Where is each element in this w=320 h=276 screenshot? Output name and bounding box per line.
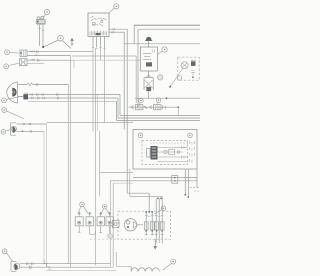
right stubs below box <box>184 169 186 194</box>
bottom bundle wires <box>20 263 110 265</box>
verticals x110 x113 <box>109 181 111 266</box>
callout G (fuse) <box>139 98 143 104</box>
ignition coil 1 <box>75 213 83 233</box>
bundle corner bends <box>44 260 48 264</box>
tail/stop lamp in dashed box <box>181 60 196 78</box>
callout Q (coil4 bottom, gray) <box>108 234 113 239</box>
right hatches <box>190 141 195 163</box>
wire from box right y29 <box>109 28 127 30</box>
magneto <box>124 219 143 231</box>
callout C (main switch) <box>109 4 119 13</box>
harness vertical x46 <box>46 124 48 267</box>
pickup coil left <box>112 220 119 228</box>
tail lamp <box>11 261 20 271</box>
callout 5 (left lower) <box>4 63 19 68</box>
position lamp (small, left) <box>11 123 17 135</box>
starter relay below battery <box>144 71 153 98</box>
wire switch down 1 <box>39 25 41 46</box>
wire y60 to x140 <box>74 59 140 61</box>
connector block <box>147 146 158 160</box>
callout E (gray) <box>158 75 163 80</box>
callout D (battery) <box>158 47 168 55</box>
feeds to magneto rows <box>127 193 149 212</box>
vertical x136 (from y56) <box>135 56 137 103</box>
front turn signal lamp (upper) <box>20 50 27 57</box>
wire y56 to x136 <box>72 55 136 57</box>
resistor coil loops <box>131 268 159 272</box>
frame ground dome <box>145 37 152 47</box>
ignition coil 2 <box>86 213 95 235</box>
leader from lamp <box>171 68 183 86</box>
vertical x138 <box>137 29 139 107</box>
harness vertical x95.5 <box>95 48 97 265</box>
wire y124 from position lamp <box>17 123 47 125</box>
wire components in magneto box <box>144 215 164 234</box>
ground arrow below magneto box <box>154 239 157 249</box>
long wire y29 <box>138 28 200 30</box>
corner x116 <box>116 252 131 266</box>
fuse chain symbols <box>131 105 166 110</box>
callout 6 (headlamp bulb) <box>2 96 24 103</box>
harness vertical x68 <box>67 85 69 264</box>
harness vertical x74 stub <box>73 60 75 68</box>
jog down verticals to feed band <box>119 95 121 116</box>
long wire y25 (dark) <box>134 24 200 26</box>
junction dot <box>42 46 44 48</box>
wire y172.5 into box <box>100 172 133 174</box>
callout H (fuse2) <box>156 98 160 104</box>
callout 8 <box>1 130 10 135</box>
box internal wires <box>158 148 188 158</box>
vertical x124 <box>123 32 125 129</box>
front turn signal lamp (lower) <box>20 59 28 66</box>
switch box pigtails <box>93 37 105 48</box>
wire y63.5 short <box>27 63 44 65</box>
callout 4 (left, turn signal) <box>5 50 19 55</box>
wire from box right y32 <box>109 31 124 33</box>
coil stub arrowheads <box>78 212 111 214</box>
wire y55.5 <box>27 55 71 57</box>
callout R (tail lamp) <box>2 249 12 261</box>
callout 7 (left, position lamp leader) <box>2 108 24 119</box>
harness vertical x100.5 bend to y60 <box>100 48 102 61</box>
callout A (top-left) <box>44 9 50 17</box>
wire y98 <box>135 97 200 99</box>
small comp on wires <box>172 176 178 184</box>
feed band lines y115-121 <box>120 115 200 117</box>
magneto dashed box <box>118 211 171 239</box>
harness vertical x97.5 <box>97 95 99 131</box>
harness vertical x104.5 <box>104 48 106 123</box>
ignition coil 3 <box>97 213 105 233</box>
main switch box (top middle) <box>88 13 109 37</box>
battery <box>141 47 158 71</box>
ignition switch S1 <box>36 16 45 25</box>
callout letter specks <box>3 6 191 263</box>
wires from bulb y94.5 / y98 with connector pairs <box>28 94 120 96</box>
harness vertical x70.5 <box>70 56 72 268</box>
wire y60 with curls <box>27 59 74 61</box>
regulator big box <box>133 130 197 170</box>
bulb blob <box>18 93 28 99</box>
vertical from fuse end <box>177 107 179 116</box>
antenna arrow symbol <box>70 38 73 46</box>
headlamp <box>7 82 18 103</box>
harness vertical x93 <box>92 48 94 131</box>
callout F on leader <box>177 76 181 80</box>
headlamp top wire y84.5 with zigzag <box>18 84 27 86</box>
wire y43.5 across battery <box>124 43 200 45</box>
vertical x134 <box>133 25 135 44</box>
inner dashed box <box>142 141 188 165</box>
callout J (box left) <box>138 133 143 138</box>
callout B (V leaders) <box>45 35 71 48</box>
callout M (magneto wires) <box>155 206 166 214</box>
vertical x99.7 <box>99 131 101 196</box>
fuse line y107 <box>129 106 179 108</box>
wire y131 <box>17 130 45 132</box>
callout P (coils 3-4) <box>101 204 109 214</box>
vertical x127 <box>126 29 128 193</box>
callout S (resistor) <box>163 259 175 269</box>
connector ticks on switch wires <box>38 29 44 31</box>
harness vertical x44 <box>43 131 45 263</box>
wire y52 with connector curls <box>27 51 93 53</box>
callout N (coils 1-2) <box>78 202 88 213</box>
callout K (box right) <box>188 133 193 138</box>
wire y122.5 long <box>47 122 134 124</box>
lighting dashed box (top right) <box>178 57 199 80</box>
wires under box y177.5 y180.5 <box>133 177 197 179</box>
dash row inside box top <box>151 142 187 144</box>
ignition coil 4 <box>106 213 114 234</box>
wire switch down 2 <box>42 25 44 47</box>
wire y101 <box>28 100 117 102</box>
